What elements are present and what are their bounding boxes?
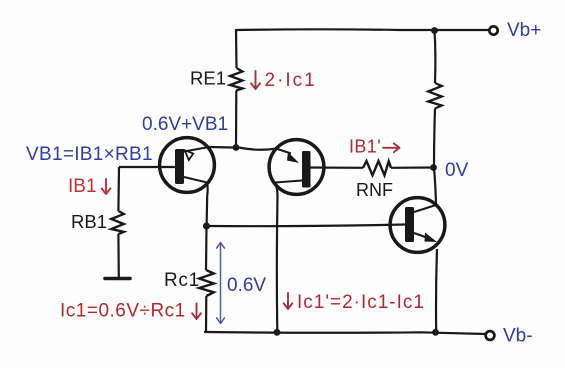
svg-text:Vb-: Vb-: [503, 326, 533, 347]
transistor Q2 circle: [269, 140, 324, 195]
annotation red down arrow after Ic1=0.6V÷Rc1: [192, 304, 201, 320]
resistor RB1: [111, 211, 124, 234]
svg-text:Ic1=0.6V÷Rc1: Ic1=0.6V÷Rc1: [60, 301, 186, 322]
wire: down to RB1: [117, 167, 120, 211]
transistor Q3 emitter arrow (solid, pointing outward): [425, 233, 438, 243]
node: emitter junction dot: [233, 144, 240, 151]
svg-text:RB1: RB1: [71, 211, 107, 232]
resistor right branch (unlabeled): [428, 83, 442, 109]
transistor Q1 emitter line: [184, 147, 209, 152]
resistor RE1: [230, 68, 242, 91]
wire: top rail Vb+: [236, 28, 489, 31]
terminal Vb+ open circle: [489, 26, 497, 34]
wire: right branch lower lead to 0V node: [434, 109, 435, 168]
wire: Rc1 bottom lead: [205, 296, 208, 332]
transistor Q3 base bar: [405, 207, 414, 242]
wire: right branch upper lead: [433, 30, 436, 83]
wire: Q1 collector down to junction: [207, 183, 208, 227]
transistor Q3 emitter line: [414, 233, 428, 238]
wire: bottom rail Vb-: [205, 332, 486, 334]
svg-text:RNF: RNF: [356, 180, 393, 200]
svg-text:0.6V+VB1: 0.6V+VB1: [142, 114, 228, 135]
wire: Q2 base lead to RNF: [310, 166, 363, 169]
svg-text:2·Ic1: 2·Ic1: [265, 70, 317, 91]
terminal Vb- open circle: [486, 331, 495, 340]
wire: RE1 bottom lead to emitter node: [235, 91, 238, 148]
transistor Q1 emitter arrow (hollow, pointing into bar): [185, 150, 194, 160]
wire: Q3 emitter down to bottom rail: [435, 249, 438, 332]
junction dot at top rail / right branch: [431, 27, 438, 34]
transistor Q1 base bar: [175, 149, 184, 184]
junction dot bottom rail / Q3 emitter: [432, 329, 439, 336]
transistor Q2 base bar: [302, 151, 311, 188]
wire: Q1 emitter to node: [209, 146, 233, 149]
svg-text:Ic1'=2·Ic1-Ic1: Ic1'=2·Ic1-Ic1: [297, 292, 425, 313]
transistor Q2 emitter line: [276, 149, 291, 154]
junction dot bottom rail / Q2 collector: [274, 329, 281, 336]
wire: RB1 bottom lead: [117, 234, 120, 277]
resistor RNF: [363, 161, 391, 175]
annotation 0.6V double arrow (blue): [217, 243, 225, 324]
svg-text:Rc1: Rc1: [164, 270, 200, 291]
transistor Q1 circle: [160, 138, 215, 193]
annotation red down arrow before Ic1': [284, 293, 293, 309]
annotation red down arrow after IB1: [102, 179, 111, 194]
wire: Q2 collector down to bottom rail: [275, 183, 278, 333]
transistor Q3 circle: [390, 198, 445, 253]
wire: RE1 top lead: [235, 30, 238, 68]
transistor Q2 collector line: [275, 181, 302, 183]
svg-text:0V: 0V: [445, 160, 469, 181]
wire: junction to Rc1: [205, 226, 208, 270]
resistor Rc1: [199, 270, 214, 296]
svg-text:0.6V: 0.6V: [227, 275, 266, 296]
svg-text:IB1': IB1': [349, 137, 381, 157]
svg-text:VB1=IB1×RB1: VB1=IB1×RB1: [26, 144, 153, 165]
wire: Q1 base lead left: [119, 166, 175, 168]
wire: RNF to 0V node: [391, 166, 432, 169]
transistor Q2 emitter arrow (solid, pointing into bar): [287, 152, 299, 163]
node: junction dot above Rc1: [203, 222, 210, 229]
node: 0V junction dot: [430, 164, 437, 171]
transistor Q1 collector line: [184, 177, 207, 183]
wire: 0V node down to Q3 collector: [434, 168, 436, 205]
annotation red right arrow after IB1': [383, 143, 400, 152]
ground terminal bar: [105, 277, 130, 281]
svg-text:IB1: IB1: [68, 176, 97, 197]
svg-text:Vb+: Vb+: [507, 20, 541, 41]
svg-text:RE1: RE1: [190, 68, 226, 89]
wire: Q3 base to Q1 collector node: [207, 225, 406, 227]
wire: Q2 emitter to node: [239, 148, 276, 150]
annotation red down arrow (2·Ic1 current): [251, 71, 260, 89]
transistor Q3 collector line: [414, 205, 436, 212]
